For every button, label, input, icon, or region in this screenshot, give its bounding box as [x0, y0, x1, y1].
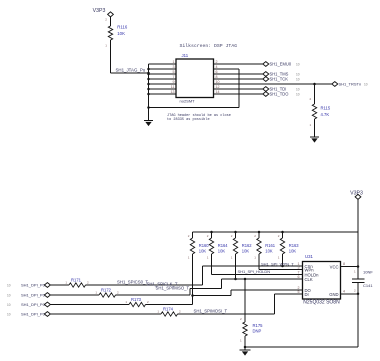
connector J11 body: [176, 59, 214, 98]
svg-text:CLK: CLK: [305, 277, 313, 282]
wire DO riser: [230, 290, 232, 296]
svg-text:Silkscreen: DSP JTAG: Silkscreen: DSP JTAG: [180, 43, 238, 49]
junction bus row pin 7: [147, 78, 150, 81]
svg-text:11: 11: [171, 85, 175, 89]
svg-text:C141: C141: [363, 283, 373, 288]
net flag SH1_TRSTn: [332, 82, 338, 87]
wire J11 pin10 TRSTn: [214, 83, 333, 85]
junction rail R164: [210, 231, 213, 234]
svg-text:R116: R116: [117, 25, 128, 30]
svg-text:SH1_SPIMISO_T: SH1_SPIMISO_T: [156, 285, 190, 290]
junction VCC cap: [357, 265, 360, 268]
resistor R173: [129, 302, 146, 306]
svg-text:R175: R175: [253, 323, 264, 328]
wire VCC rail down segment: [357, 232, 359, 279]
power symbol V3P3 (top left): [108, 12, 114, 17]
SPI flash U31 body: [303, 262, 341, 300]
svg-text:SH1_DPI_P05: SH1_DPI_P05: [21, 283, 48, 288]
wire V3P3 to R116: [110, 17, 112, 26]
wire J11 pin4 down: [238, 69, 240, 108]
net flag SH1_DPI_P08: [44, 312, 50, 317]
svg-text:GND: GND: [329, 292, 338, 297]
net flag SH1_TMS: [263, 72, 269, 77]
svg-text:R171: R171: [71, 277, 82, 282]
svg-text:10K: 10K: [265, 249, 273, 254]
junction rail R162: [234, 231, 237, 234]
wire TRSTn to R115: [314, 84, 316, 104]
svg-text:9: 9: [173, 80, 175, 84]
wire bus to J11 pin 1: [149, 63, 177, 65]
junction GND stub: [357, 293, 360, 296]
ground (left of J11): [144, 121, 153, 127]
svg-text:J11: J11: [182, 53, 189, 58]
svg-text:SH1_DPI_P07: SH1_DPI_P07: [21, 302, 48, 307]
left pin bus vertical: [148, 64, 150, 121]
svg-text:R173: R173: [131, 297, 142, 302]
svg-text:1: 1: [240, 339, 242, 343]
wire U31 GND stub: [341, 293, 359, 295]
wire SH1_DPI_P06 to R172: [50, 294, 99, 296]
svg-text:R174: R174: [163, 306, 174, 311]
wire MISO riser: [192, 296, 194, 305]
svg-text:2: 2: [188, 234, 190, 238]
junction R160 on MISO wire: [191, 294, 194, 297]
wire bus to J11 pin 3: [149, 68, 177, 70]
svg-text:2: 2: [231, 234, 233, 238]
junction bus row pin 5: [147, 73, 150, 76]
svg-text:1: 1: [188, 256, 190, 260]
junction rail R161: [258, 231, 261, 234]
svg-text:10: 10: [7, 303, 11, 307]
wire R164 down: [211, 254, 213, 275]
svg-text:2: 2: [147, 300, 149, 304]
svg-text:no2SMT: no2SMT: [180, 98, 196, 103]
svg-text:4: 4: [343, 289, 345, 293]
wire R161 down: [258, 254, 260, 270]
net flag SH1_DPI_P05: [44, 283, 50, 288]
junction TRSTn pulldown: [313, 83, 316, 86]
resistor R160: [190, 238, 194, 254]
svg-text:VCC: VCC: [330, 264, 339, 269]
ground (bottom center): [240, 350, 251, 356]
svg-text:2: 2: [87, 280, 89, 284]
wire SH1_DPI_P05 to R171: [50, 284, 69, 286]
wire R174 to net: [178, 313, 275, 315]
net flag SH1_DPI_P07: [44, 302, 50, 307]
wire R115 to ground: [314, 119, 316, 137]
wire WPn row: [259, 269, 303, 271]
wire SH1_JTAG_Pu to bus: [111, 72, 149, 74]
wire DI riser: [274, 294, 276, 314]
wire R173 to net: [146, 304, 193, 306]
wire R171 to net: [86, 284, 203, 286]
svg-text:1: 1: [65, 280, 67, 284]
junction R163 on CS wire: [281, 265, 284, 268]
svg-text:10K: 10K: [218, 249, 226, 254]
resistor R163: [280, 238, 284, 254]
resistor R171: [69, 283, 86, 287]
wire HOLDn row: [212, 274, 303, 276]
junction bus row pin 13: [147, 93, 150, 96]
svg-text:1: 1: [105, 44, 107, 48]
resistor R161: [257, 238, 261, 254]
wire R172 to net: [116, 294, 191, 296]
resistor R164: [209, 238, 213, 254]
svg-text:10: 10: [364, 83, 368, 87]
wire rail to R161: [258, 232, 260, 238]
wire GND down right side: [357, 294, 359, 347]
svg-text:2: 2: [117, 290, 119, 294]
svg-text:10NF: 10NF: [363, 269, 373, 274]
wire GND return bottom: [245, 346, 358, 348]
junction rail R163: [281, 231, 284, 234]
svg-text:1: 1: [254, 256, 256, 260]
wire J11 to SH1_TMS: [214, 73, 264, 75]
wire CLK jog riser: [189, 288, 191, 295]
pull-up rail: [193, 231, 359, 233]
svg-text:R162: R162: [242, 243, 253, 248]
junction bus row pin 9: [147, 83, 150, 86]
svg-text:10K: 10K: [242, 249, 250, 254]
svg-text:10: 10: [296, 63, 300, 67]
net flag SH1_EMU0: [263, 62, 269, 67]
svg-text:10: 10: [7, 313, 11, 317]
net flag SH1_TDI: [263, 87, 269, 92]
svg-text:10K: 10K: [289, 249, 297, 254]
svg-text:V3P3: V3P3: [350, 191, 363, 197]
wire bus to J11 pin 5: [149, 73, 177, 75]
resistor R116: [108, 26, 112, 40]
wire CLK riser: [221, 279, 223, 288]
wire U31 VCC stub: [341, 266, 359, 268]
net flag SH1_TDO: [263, 92, 269, 97]
svg-text:8: 8: [343, 262, 345, 266]
wire V3P3 down to rail: [357, 199, 359, 232]
svg-text:SH1_JTAG_Pu: SH1_JTAG_Pu: [116, 67, 146, 72]
wire J11 to SH1_TDO: [214, 93, 264, 95]
wire rail to R160: [192, 232, 194, 238]
wire R175 to GND line: [244, 336, 246, 347]
wire rail to R164: [211, 232, 213, 238]
wire R162 down: [235, 254, 237, 279]
resistor R172: [99, 293, 116, 297]
resistor R175 (DNP): [243, 322, 247, 336]
wire R116 down: [110, 40, 112, 73]
wire SH1_DPI_P08 to R174: [50, 313, 161, 315]
svg-text:2: 2: [310, 97, 312, 101]
svg-text:10: 10: [296, 93, 300, 97]
svg-text:V3P3: V3P3: [93, 8, 106, 14]
junction bus row pin 3: [147, 68, 150, 71]
svg-text:13: 13: [171, 90, 175, 94]
wire CSn row: [203, 265, 303, 267]
junction CLK DNP tap: [244, 278, 247, 281]
svg-text:1: 1: [207, 256, 209, 260]
junction bus row pin 11: [147, 88, 150, 91]
svg-text:SH1_SPIMOSI_T: SH1_SPIMOSI_T: [194, 308, 228, 313]
svg-text:2: 2: [240, 317, 242, 321]
svg-text:DI: DI: [305, 292, 309, 297]
svg-text:SH1_SPICS0_T: SH1_SPICS0_T: [117, 279, 148, 284]
wire R160 down: [192, 254, 194, 296]
svg-text:SH1_DPI_P06: SH1_DPI_P06: [21, 293, 48, 298]
svg-text:SH1_SPI_HOLDN: SH1_SPI_HOLDN: [238, 269, 271, 274]
wire J11 to SH1_TDI: [214, 88, 264, 90]
ground (below R115): [310, 137, 319, 143]
wire bus to J11 pin 9: [149, 83, 177, 85]
svg-text:to 28335 as possible: to 28335 as possible: [167, 117, 210, 122]
svg-text:N25Q032 SO8N: N25Q032 SO8N: [303, 300, 340, 306]
svg-text:2: 2: [105, 18, 107, 22]
resistor R162: [233, 238, 237, 254]
wire CLK row: [222, 278, 303, 280]
wire R163 down: [282, 254, 284, 266]
svg-text:3: 3: [173, 65, 175, 69]
svg-text:U31: U31: [305, 254, 313, 259]
svg-text:SH1_EMU0: SH1_EMU0: [270, 62, 292, 67]
net flag SH1_TCK: [263, 77, 269, 82]
power symbol V3P3 (right): [355, 194, 361, 199]
wire to ground symbol: [244, 347, 246, 350]
svg-text:R115: R115: [321, 105, 331, 110]
svg-text:1: 1: [95, 290, 97, 294]
svg-text:1: 1: [173, 60, 175, 64]
wire bus to J11 pin 13: [149, 93, 177, 95]
svg-text:SH1_TDO: SH1_TDO: [270, 92, 289, 97]
svg-text:R164: R164: [218, 243, 229, 248]
bottom return wire: [149, 107, 240, 109]
wire CLK mid segment: [190, 287, 222, 289]
svg-text:10: 10: [296, 73, 300, 77]
net flag SH1_DPI_P06: [44, 293, 50, 298]
capacitor C141 top plate: [352, 278, 365, 280]
svg-text:1: 1: [354, 270, 356, 274]
svg-text:SH1_TCK: SH1_TCK: [270, 77, 289, 82]
wire rail to R163: [282, 232, 284, 238]
svg-text:2: 2: [207, 234, 209, 238]
svg-text:10K: 10K: [117, 31, 125, 36]
svg-text:10: 10: [296, 88, 300, 92]
wire CS riser: [202, 266, 204, 285]
wire rail to R162: [235, 232, 237, 238]
capacitor C141 bottom plate: [352, 281, 365, 283]
svg-text:R161: R161: [265, 243, 276, 248]
junction R162 on CLK wire: [234, 278, 237, 281]
wire DI row: [275, 293, 303, 295]
svg-text:2: 2: [254, 234, 256, 238]
svg-text:R160: R160: [199, 243, 210, 248]
svg-text:1: 1: [310, 123, 312, 127]
resistor R115: [312, 104, 316, 119]
wire bus to J11 pin 7: [149, 78, 177, 80]
wire DO row: [231, 289, 303, 291]
svg-text:1: 1: [278, 256, 280, 260]
svg-text:SH1_SPI_WPN_T: SH1_SPI_WPN_T: [261, 261, 294, 266]
wire J11 to SH1_EMU0: [214, 63, 264, 65]
svg-text:2: 2: [179, 309, 181, 313]
svg-text:R163: R163: [289, 243, 300, 248]
wire J11 pin4 right: [214, 68, 240, 70]
svg-text:5: 5: [173, 70, 175, 74]
wire CLK to R175: [244, 279, 246, 322]
svg-text:10: 10: [7, 284, 11, 288]
svg-text:R172: R172: [101, 287, 112, 292]
wire cap to GND stub: [357, 282, 359, 293]
svg-text:1: 1: [125, 300, 127, 304]
svg-text:DNP: DNP: [253, 329, 262, 334]
svg-text:2: 2: [354, 288, 356, 292]
wire SH1_DPI_P07 to R173: [50, 304, 129, 306]
junction GND DNP: [244, 346, 247, 349]
svg-text:7: 7: [173, 75, 175, 79]
svg-text:1: 1: [231, 256, 233, 260]
wire MISO mid segment: [193, 295, 232, 297]
svg-text:10: 10: [7, 294, 11, 298]
wire J11 to SH1_TCK: [214, 78, 264, 80]
junction bus at bottom return: [147, 106, 150, 109]
wire bus to J11 pin 11: [149, 88, 177, 90]
resistor R174: [161, 312, 178, 316]
svg-text:2: 2: [278, 234, 280, 238]
svg-text:10: 10: [296, 78, 300, 82]
svg-text:SH1_TRSTn: SH1_TRSTn: [339, 82, 362, 87]
svg-text:1: 1: [157, 309, 159, 313]
svg-text:SH1_DPI_P08: SH1_DPI_P08: [21, 312, 48, 317]
svg-text:10K: 10K: [199, 249, 207, 254]
junction on left bus at pull-up: [147, 72, 150, 75]
svg-text:4.7K: 4.7K: [321, 112, 330, 117]
